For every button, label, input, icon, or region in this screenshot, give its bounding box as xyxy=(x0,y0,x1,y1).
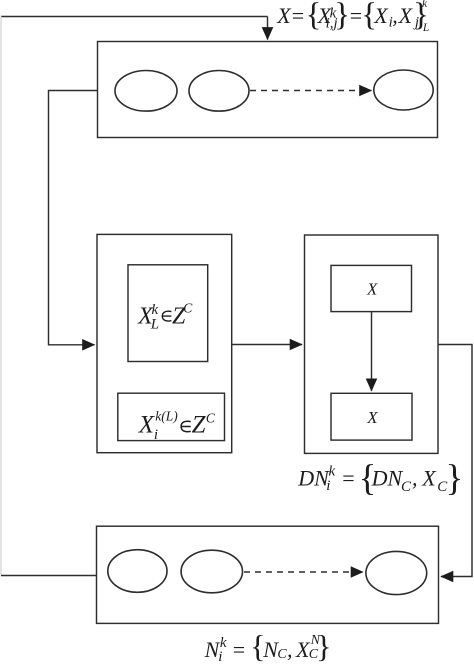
svg-text:=: = xyxy=(342,466,354,491)
svg-text:k: k xyxy=(152,302,159,318)
box: X top xyxy=(331,265,412,311)
svg-text:X: X xyxy=(366,408,378,427)
svg-text:i: i xyxy=(154,427,158,443)
label: formula X = {X k i,j} = {Xi, Xj} k L xyxy=(276,0,429,34)
wire: vertical arrow between X boxes xyxy=(371,312,373,391)
svg-text:X: X xyxy=(398,3,414,28)
svg-text:X: X xyxy=(421,466,437,491)
node ellipse 3 top xyxy=(374,70,433,110)
node ellipse 2 top xyxy=(189,71,249,112)
box: inner XikL xyxy=(118,393,225,440)
svg-text:C: C xyxy=(183,301,193,316)
box: middle-right container xyxy=(305,235,439,453)
wire: dashed arrow top xyxy=(250,90,372,92)
svg-text:,: , xyxy=(412,466,418,491)
svg-text:L: L xyxy=(422,22,429,34)
wire: right feedback elbow xyxy=(438,345,472,577)
svg-text:i: i xyxy=(218,649,222,665)
svg-text:}: } xyxy=(316,628,331,664)
svg-text:X: X xyxy=(373,3,389,28)
node ellipse 2 bottom xyxy=(181,550,242,593)
label: formula Nki = {NC, XNC} xyxy=(204,628,332,665)
node ellipse 3 bottom xyxy=(366,551,427,594)
svg-text:}: } xyxy=(446,458,464,499)
label: formula Xi k(L) in ZC (inner box 2) xyxy=(138,409,216,443)
wire: arrow into top box xyxy=(267,17,269,40)
box: inner XkL xyxy=(128,265,208,362)
box: X bottom xyxy=(331,393,412,440)
svg-text:Z: Z xyxy=(192,412,207,439)
box: bottom container xyxy=(97,526,439,623)
svg-text:=: = xyxy=(292,3,304,28)
svg-text:X: X xyxy=(366,280,378,299)
svg-text:k(L): k(L) xyxy=(155,409,178,424)
svg-text:DN: DN xyxy=(371,466,404,491)
svg-text:=: = xyxy=(350,3,362,28)
svg-text:C: C xyxy=(206,410,216,425)
wire: top feedback horizontal xyxy=(1,16,268,18)
label: formula XkL in ZC (inner box 1) xyxy=(137,301,193,333)
svg-text:DN: DN xyxy=(297,466,330,491)
wire: left feedback vertical (faint) xyxy=(0,17,2,576)
wire: elbow from top box to middle box xyxy=(49,91,98,345)
node ellipse 1 bottom xyxy=(108,550,167,593)
svg-text:X: X xyxy=(276,3,292,28)
svg-text:i: i xyxy=(326,478,330,494)
svg-text:,: , xyxy=(287,637,293,662)
svg-text:=: = xyxy=(233,637,245,662)
svg-text:k: k xyxy=(422,0,428,10)
wire: dashed arrow bottom xyxy=(244,571,363,573)
svg-text:C: C xyxy=(277,647,287,662)
wire: arrow middle-left to middle-right xyxy=(232,344,302,346)
element-of symbol xyxy=(162,311,171,321)
box: middle-left container xyxy=(97,234,232,452)
svg-text:C: C xyxy=(401,479,412,495)
svg-text:,: , xyxy=(392,3,398,28)
label: formula DNki = {DNC, XC} xyxy=(297,458,463,499)
node ellipse 1 top xyxy=(115,71,177,112)
svg-text:L: L xyxy=(150,316,159,332)
svg-text:}: } xyxy=(334,0,350,33)
wire: bottom-left entry xyxy=(1,575,97,577)
element-of symbol xyxy=(181,421,191,431)
box: top container xyxy=(98,42,438,138)
